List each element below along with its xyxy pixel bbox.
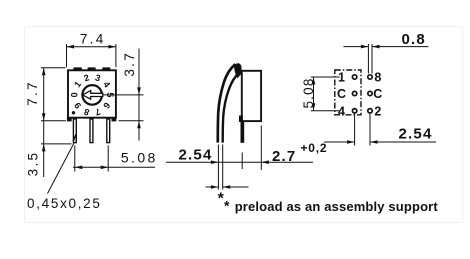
svg-text:2.7: 2.7 [272,148,296,165]
svg-text:5.08: 5.08 [301,77,316,108]
svg-text:0,45x0,25: 0,45x0,25 [27,196,102,211]
svg-text:2.54: 2.54 [179,146,213,163]
preloaded bent pin [218,63,242,142]
dimension 5.08 front [73,146,158,172]
svg-text:*: * [224,198,230,214]
svg-text:C: C [337,87,346,101]
svg-text:2: 2 [374,104,381,118]
svg-text:3.7: 3.7 [122,51,137,77]
svg-text:5.08: 5.08 [121,149,158,165]
rotary dial circle [82,85,102,105]
svg-text:C: C [373,87,382,101]
bottom view dashed outline [335,70,361,115]
front view body [67,67,116,121]
dimension 2.7 +0,2 [261,126,327,171]
dimension 2.54 middle [166,146,313,169]
index dot [72,111,75,114]
front pins [73,119,109,143]
bent pin width dimension [206,145,249,208]
dimension 7.4 [67,32,116,68]
svg-text:+0,2: +0,2 [301,141,328,155]
dimension 3.5 [26,121,72,177]
dimension 0.8 [344,31,429,74]
svg-text:8: 8 [374,71,381,85]
border frame [25,27,463,223]
svg-text:3.5: 3.5 [26,151,41,177]
dimension 3.7 and centre line [103,49,144,141]
dimension 7.7 [25,68,66,121]
svg-text:7.7: 7.7 [25,80,40,106]
leader 0,45x0,25 [27,143,102,211]
bottom view pins [352,75,372,113]
svg-text:0: 0 [69,92,79,97]
dimension 5.08 right [301,77,340,111]
side straight pin [241,121,245,143]
svg-text:preload as an assembly support: preload as an assembly support [235,199,439,214]
svg-text:1: 1 [338,71,345,85]
dimension 2.54 right [324,114,436,146]
svg-text:2.54: 2.54 [399,125,433,142]
footnote [224,198,438,214]
svg-text:0.8: 0.8 [402,31,426,48]
side view body [239,71,261,122]
pin labels [337,71,382,119]
dial digits 0-9 [69,72,115,117]
svg-text:7.4: 7.4 [80,32,106,47]
